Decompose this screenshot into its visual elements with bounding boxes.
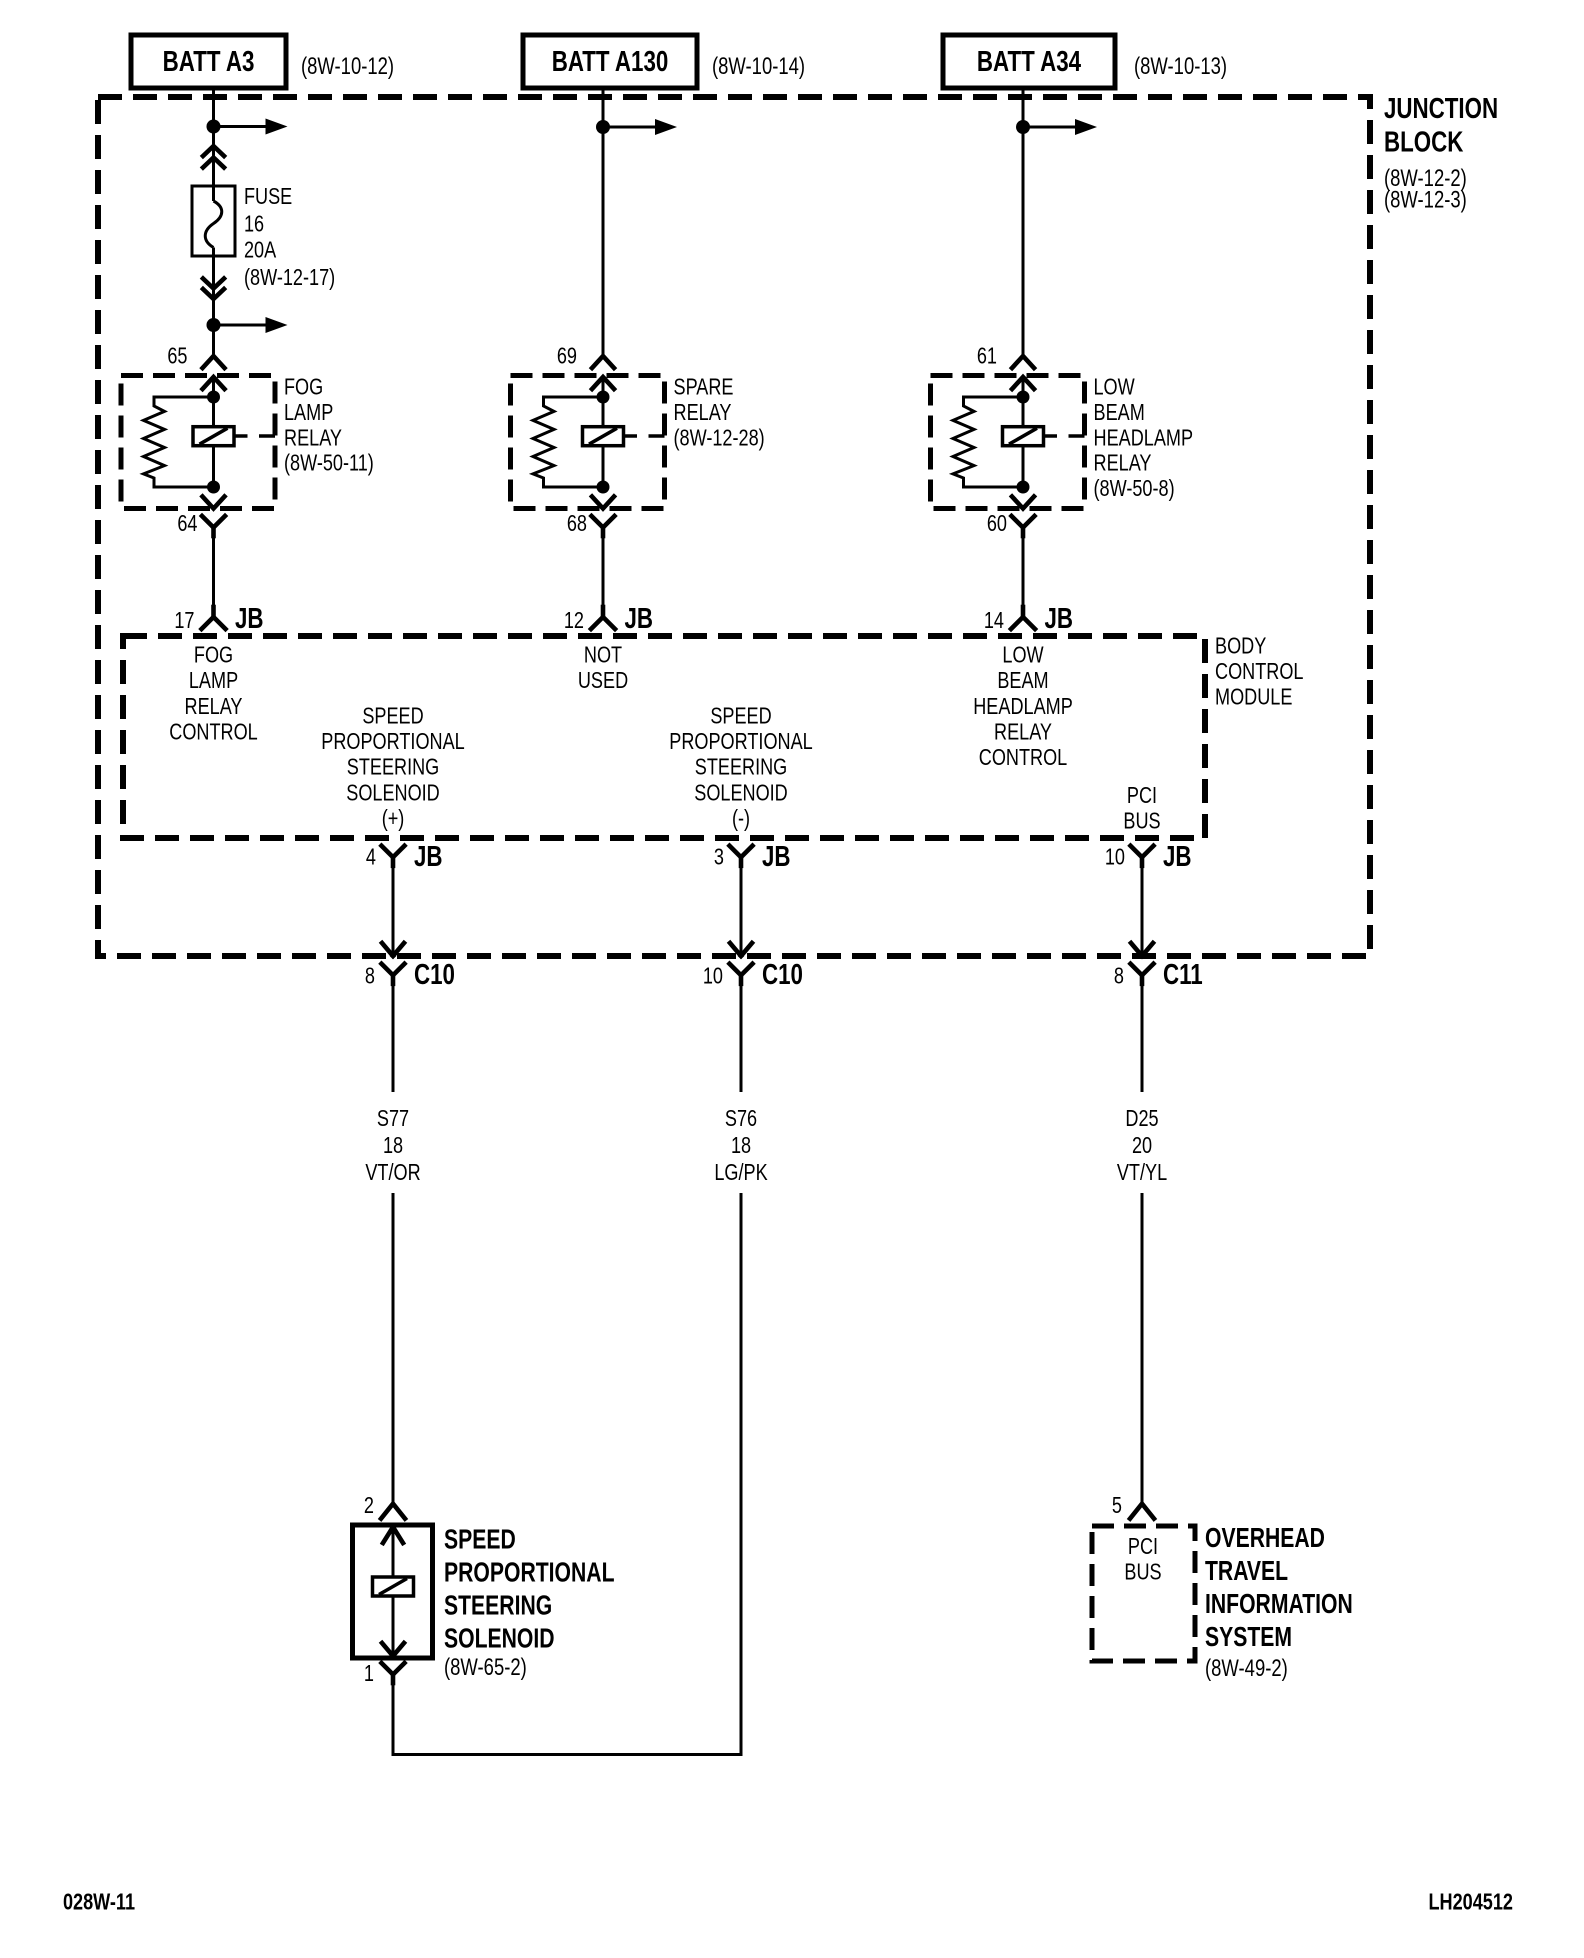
relay coil pin stub xyxy=(1044,434,1058,438)
relay internal node top xyxy=(1017,391,1030,404)
svg-text:HEADLAMP: HEADLAMP xyxy=(973,694,1073,720)
relay coil xyxy=(583,427,624,446)
wire xyxy=(212,377,215,427)
svg-text:RELAY: RELAY xyxy=(1094,451,1152,477)
svg-text:LG/PK: LG/PK xyxy=(714,1160,767,1186)
svg-text:PROPORTIONAL: PROPORTIONAL xyxy=(444,1558,615,1588)
svg-text:BATT A34: BATT A34 xyxy=(977,46,1082,77)
svg-text:SOLENOID: SOLENOID xyxy=(694,780,788,806)
svg-text:12: 12 xyxy=(564,608,584,634)
wire xyxy=(1141,865,1144,956)
relay coil output chevron xyxy=(1012,497,1034,509)
relay coil input chevron xyxy=(592,377,614,389)
svg-text:3: 3 xyxy=(714,844,724,870)
svg-text:68: 68 xyxy=(567,511,587,537)
arrow into junction block edge xyxy=(1131,943,1142,956)
svg-text:BODY: BODY xyxy=(1215,633,1266,659)
svg-text:LH204512: LH204512 xyxy=(1428,1889,1513,1915)
relay low beam headlamp boundary xyxy=(931,376,1085,509)
svg-text:FOG: FOG xyxy=(194,642,233,668)
relay fog lamp boundary xyxy=(121,376,275,509)
wire D25 lower segment xyxy=(1141,1193,1144,1503)
junction block boundary xyxy=(98,97,1370,956)
relay coil pin stub xyxy=(234,434,248,438)
svg-text:20: 20 xyxy=(1132,1133,1152,1159)
wire from BATT A3 xyxy=(212,88,215,201)
relay coil pin stub xyxy=(624,434,638,438)
svg-text:JB: JB xyxy=(235,603,264,634)
svg-text:SPEED: SPEED xyxy=(444,1525,516,1555)
svg-text:HEADLAMP: HEADLAMP xyxy=(1094,425,1194,451)
relay spare boundary xyxy=(511,376,665,509)
splice node with branch arrow xyxy=(207,318,221,332)
relay coil output chevron xyxy=(592,497,614,509)
svg-text:S76: S76 xyxy=(725,1106,757,1132)
svg-text:LOW: LOW xyxy=(1002,642,1043,668)
svg-text:SPEED: SPEED xyxy=(710,703,771,729)
return wire to S76 xyxy=(392,1682,395,1753)
relay clamping resistor xyxy=(144,397,214,487)
wire xyxy=(392,865,395,956)
arrow into junction block edge xyxy=(730,943,741,956)
solenoid coil xyxy=(373,1577,414,1596)
svg-text:FOG: FOG xyxy=(284,374,323,400)
fuse 16 xyxy=(192,186,235,256)
wire from BATT A34 xyxy=(1022,88,1025,356)
svg-text:C11: C11 xyxy=(1163,959,1203,990)
svg-text:OVERHEAD: OVERHEAD xyxy=(1205,1523,1325,1553)
svg-text:PCI: PCI xyxy=(1128,1534,1158,1560)
svg-text:RELAY: RELAY xyxy=(994,719,1052,745)
wire xyxy=(1022,446,1025,487)
relay coil input chevron xyxy=(203,377,225,389)
relay internal node bottom xyxy=(207,481,220,494)
overhead travel information system boundary xyxy=(1092,1526,1195,1661)
svg-text:17: 17 xyxy=(174,608,194,634)
svg-text:(8W-10-14): (8W-10-14) xyxy=(712,53,805,80)
svg-text:FUSE: FUSE xyxy=(244,184,292,210)
svg-text:(8W-12-28): (8W-12-28) xyxy=(674,425,765,451)
svg-text:LOW: LOW xyxy=(1094,374,1135,400)
svg-text:(8W-50-8): (8W-50-8) xyxy=(1094,476,1175,502)
svg-text:BUS: BUS xyxy=(1123,808,1160,834)
svg-text:NOT: NOT xyxy=(584,642,622,668)
svg-text:CONTROL: CONTROL xyxy=(979,745,1067,771)
arrow into junction block edge xyxy=(382,943,393,956)
svg-text:69: 69 xyxy=(557,343,577,369)
svg-text:(8W-50-11): (8W-50-11) xyxy=(284,451,374,477)
svg-text:STEERING: STEERING xyxy=(444,1591,552,1621)
power feed box BATT A3 xyxy=(131,35,286,88)
relay coil xyxy=(193,427,234,446)
svg-text:61: 61 xyxy=(977,343,997,369)
relay internal node top xyxy=(597,391,610,404)
svg-text:STEERING: STEERING xyxy=(695,755,787,781)
svg-text:LAMP: LAMP xyxy=(189,668,238,694)
svg-text:2: 2 xyxy=(364,1493,374,1519)
svg-text:VT/YL: VT/YL xyxy=(1117,1160,1167,1186)
svg-text:S77: S77 xyxy=(377,1106,409,1132)
wire xyxy=(392,1596,395,1656)
splice node with branch arrow xyxy=(1016,120,1030,134)
svg-text:(8W-49-2): (8W-49-2) xyxy=(1205,1655,1288,1682)
svg-text:BEAM: BEAM xyxy=(997,668,1048,694)
svg-text:18: 18 xyxy=(731,1133,751,1159)
svg-text:PROPORTIONAL: PROPORTIONAL xyxy=(321,729,464,755)
relay coil output chevron xyxy=(203,497,225,509)
svg-text:10: 10 xyxy=(1105,844,1125,870)
svg-text:INFORMATION: INFORMATION xyxy=(1205,1589,1353,1619)
svg-text:MODULE: MODULE xyxy=(1215,684,1292,710)
wire xyxy=(212,536,215,607)
relay clamping resistor xyxy=(953,397,1023,487)
inline connector (double chevron down) xyxy=(203,279,224,289)
wire xyxy=(602,377,605,427)
svg-text:(8W-10-13): (8W-10-13) xyxy=(1134,53,1227,80)
relay internal node bottom xyxy=(1017,481,1030,494)
svg-text:5: 5 xyxy=(1112,1493,1122,1519)
svg-text:BLOCK: BLOCK xyxy=(1384,127,1464,158)
wire S77 18 VT/OR xyxy=(392,984,395,1092)
svg-text:D25: D25 xyxy=(1125,1106,1158,1132)
wire xyxy=(1022,536,1025,607)
svg-text:LAMP: LAMP xyxy=(284,400,333,426)
svg-text:STEERING: STEERING xyxy=(347,755,439,781)
wire D25 20 VT/YL xyxy=(1141,984,1144,1092)
wire from BATT A130 xyxy=(602,88,605,356)
svg-text:RELAY: RELAY xyxy=(185,694,243,720)
svg-text:CONTROL: CONTROL xyxy=(1215,659,1303,685)
svg-text:60: 60 xyxy=(987,511,1007,537)
svg-text:(-): (-) xyxy=(732,806,750,832)
body control module boundary xyxy=(123,636,1205,838)
svg-text:C10: C10 xyxy=(414,959,455,990)
svg-text:SOLENOID: SOLENOID xyxy=(444,1624,555,1654)
svg-text:JB: JB xyxy=(1045,603,1074,634)
svg-text:RELAY: RELAY xyxy=(284,425,342,451)
svg-text:USED: USED xyxy=(578,668,628,694)
svg-text:PCI: PCI xyxy=(1127,783,1157,809)
svg-text:8: 8 xyxy=(1114,963,1124,989)
svg-text:65: 65 xyxy=(167,343,187,369)
svg-text:14: 14 xyxy=(984,608,1004,634)
svg-text:(8W-12-3): (8W-12-3) xyxy=(1384,186,1467,213)
svg-text:C10: C10 xyxy=(762,959,803,990)
svg-text:20A: 20A xyxy=(244,237,276,263)
wire S76 18 LG/PK xyxy=(740,984,743,1092)
svg-text:10: 10 xyxy=(703,963,723,989)
svg-text:64: 64 xyxy=(177,511,197,537)
wire S76 lower segment xyxy=(740,1193,743,1755)
relay internal node bottom xyxy=(597,481,610,494)
svg-text:BATT A130: BATT A130 xyxy=(552,46,669,77)
svg-text:RELAY: RELAY xyxy=(674,400,732,426)
svg-text:CONTROL: CONTROL xyxy=(169,719,257,745)
relay coil xyxy=(1003,427,1044,446)
svg-text:PROPORTIONAL: PROPORTIONAL xyxy=(669,729,812,755)
svg-text:JB: JB xyxy=(1163,841,1192,872)
relay coil input chevron xyxy=(1012,377,1034,389)
svg-text:(8W-12-17): (8W-12-17) xyxy=(244,265,335,291)
svg-text:(8W-10-12): (8W-10-12) xyxy=(301,53,394,80)
svg-text:TRAVEL: TRAVEL xyxy=(1205,1556,1288,1586)
svg-text:BEAM: BEAM xyxy=(1094,400,1145,426)
svg-text:JB: JB xyxy=(625,603,654,634)
svg-text:BATT A3: BATT A3 xyxy=(163,46,255,77)
svg-text:BUS: BUS xyxy=(1124,1559,1161,1585)
wire xyxy=(212,248,215,357)
power feed box BATT A130 xyxy=(523,35,697,88)
power feed box BATT A34 xyxy=(943,35,1115,88)
splice node with branch arrow xyxy=(596,120,610,134)
svg-text:VT/OR: VT/OR xyxy=(365,1160,420,1186)
inline connector (double chevron up) xyxy=(203,146,224,156)
svg-text:8: 8 xyxy=(365,963,375,989)
svg-text:4: 4 xyxy=(366,844,376,870)
svg-text:SYSTEM: SYSTEM xyxy=(1205,1622,1292,1652)
solenoid input arrow xyxy=(383,1527,393,1543)
svg-text:16: 16 xyxy=(244,211,264,237)
speed proportional steering solenoid box xyxy=(353,1525,433,1658)
svg-text:SPARE: SPARE xyxy=(674,374,734,400)
wire S77 lower segment xyxy=(392,1193,395,1503)
svg-text:(8W-65-2): (8W-65-2) xyxy=(444,1654,527,1681)
wire xyxy=(1022,377,1025,427)
svg-text:SOLENOID: SOLENOID xyxy=(346,780,440,806)
relay clamping resistor xyxy=(533,397,603,487)
wire xyxy=(212,446,215,487)
svg-text:JB: JB xyxy=(762,841,791,872)
wire xyxy=(602,446,605,487)
svg-text:18: 18 xyxy=(383,1133,403,1159)
relay internal node top xyxy=(207,391,220,404)
svg-text:JUNCTION: JUNCTION xyxy=(1384,93,1498,124)
svg-text:1: 1 xyxy=(364,1661,374,1687)
svg-text:(+): (+) xyxy=(382,806,405,832)
solenoid output arrow xyxy=(382,1643,393,1656)
svg-text:SPEED: SPEED xyxy=(362,703,423,729)
svg-text:JB: JB xyxy=(414,841,443,872)
svg-text:028W-11: 028W-11 xyxy=(63,1889,135,1915)
splice node with branch arrow xyxy=(207,120,221,134)
wire xyxy=(740,865,743,956)
wire xyxy=(602,536,605,607)
